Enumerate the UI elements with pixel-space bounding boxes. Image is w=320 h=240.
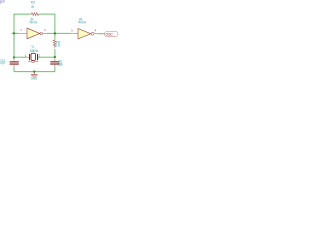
svg-text:74HC04: 74HC04 [29, 21, 37, 25]
wire inverter2 input [55, 32, 71, 34]
svg-text:1.5K: 1.5K [56, 44, 61, 48]
svg-text:GND: GND [31, 77, 38, 81]
crystal Y1 [25, 45, 41, 63]
wire crystal right [39, 56, 55, 58]
junction node C (crystal left) [13, 56, 15, 58]
op-amp U5A (74HC04 inverter 1) [19, 17, 47, 38]
wire inverter1 output [47, 32, 55, 34]
svg-text:47pF: 47pF [0, 61, 5, 65]
svg-text:OSC: OSC [106, 33, 114, 37]
junction node B (inverter1 output) [54, 32, 56, 34]
svg-text:3: 3 [71, 28, 73, 32]
wire right rail middle [54, 49, 56, 58]
wire left rail lower segment [13, 67, 15, 72]
wire inverter2 output to label [97, 33, 104, 35]
svg-text:4MHz: 4MHz [30, 49, 39, 53]
resistor R23 [30, 1, 40, 16]
junction node E (ground rail) [33, 70, 35, 72]
node 4MHZ (output global label) [105, 32, 119, 37]
wire right rail top [54, 14, 56, 39]
svg-text:74HC04: 74HC04 [78, 21, 86, 25]
op-amp U5B (74HC04 inverter 2) [71, 17, 98, 39]
wire top rail left segment [14, 13, 30, 15]
wire inverter1 input [14, 32, 19, 34]
ground [31, 72, 38, 81]
svg-text:1: 1 [20, 28, 22, 32]
svg-text:2M: 2M [31, 5, 34, 9]
wire stub left of node A [12, 32, 15, 34]
wire top rail right segment [40, 13, 55, 15]
junction node A (inverter1 input) [13, 32, 15, 34]
wire bottom rail [14, 71, 55, 73]
capacitor C12 [50, 58, 63, 67]
svg-text:2: 2 [44, 28, 46, 32]
svg-text:4: 4 [95, 29, 97, 33]
junction node D (crystal right) [54, 56, 56, 58]
wire right rail bottom [54, 67, 56, 72]
crystal case outline [28, 61, 38, 63]
resistor R24 [53, 39, 61, 48]
svg-text:33pF: 33pF [58, 62, 63, 66]
wire left rail vertical [13, 14, 15, 58]
svg-text:gnd: gnd [0, 0, 5, 3]
wire crystal left [14, 56, 27, 58]
capacitor C13 [0, 58, 19, 67]
